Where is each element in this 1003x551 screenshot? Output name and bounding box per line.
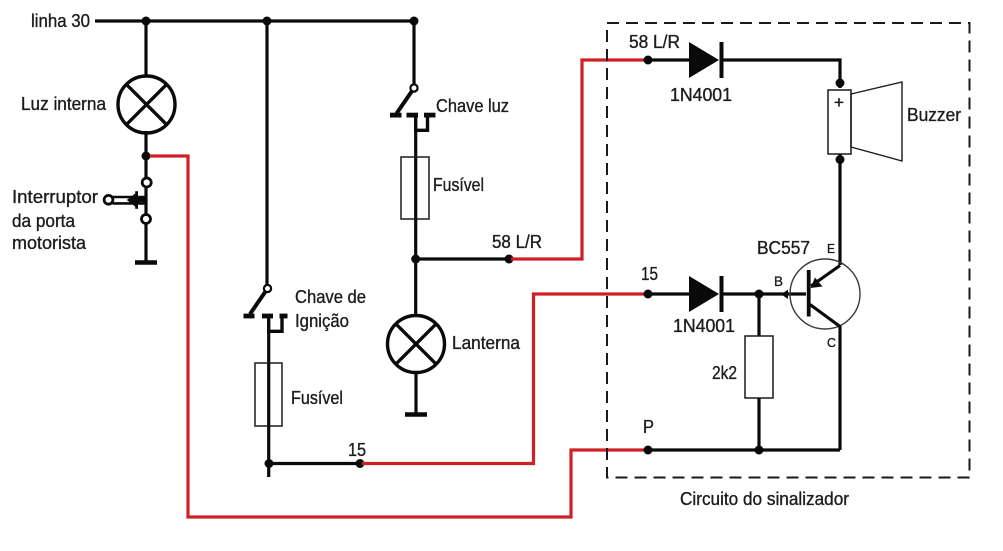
switch Chave de Ignição [244,285,288,331]
junction node 15 [265,459,274,468]
svg-text:Chave luz: Chave luz [436,96,509,116]
svg-text:da porta: da porta [12,211,76,231]
wire fuse to node 15 [267,426,270,477]
switch Interruptor da porta (door switch) [104,178,151,224]
svg-text:P: P [643,417,654,437]
svg-text:+: + [834,93,844,112]
node 58 L/R inside box [644,56,653,65]
wire node 15 horizontal [269,462,360,465]
ground below door switch [135,260,157,265]
wire top bus to Luz interna lamp [144,21,147,77]
svg-text:1N4001: 1N4001 [670,85,732,105]
junction top bus / Luz interna column [142,17,151,26]
junction node 58 L/R [411,255,420,264]
junction base / resistor node [755,290,764,299]
buzzer [828,82,902,161]
wire node 58 L/R horizontal [416,257,509,260]
wire top bus to Chave luz [412,21,415,85]
svg-text:15: 15 [641,264,658,284]
wire top bus linha 30 [95,19,414,22]
junction resistor / bottom rail [755,446,764,455]
wire fuse to node 58 L/R [414,219,417,259]
node junction red tap below Luz interna [142,152,151,161]
svg-text:E: E [827,242,835,256]
dashed box Circuito do sinalizador [607,23,970,478]
fuse Fusível (light branch) [401,157,429,219]
diode D1 1N4001 [689,42,722,78]
wire Chave luz to fuse [414,130,417,157]
svg-text:Interruptor: Interruptor [12,187,98,207]
wire red: 58 L/R feed into signal circuit [511,60,645,259]
wire red: 15 feed into signal circuit [362,294,645,464]
diode D2 1N4001 [689,276,722,312]
node P [644,446,653,455]
svg-text:58 L/R: 58 L/R [492,232,542,252]
svg-text:B: B [774,274,783,289]
junction top bus / Chave luz column [410,17,419,26]
svg-text:Lanterna: Lanterna [452,333,521,353]
wire base junction to resistor [757,294,760,336]
node 15 inside box [644,290,653,299]
lamp Luz interna [118,76,175,133]
wire resistor to bottom rail [757,398,760,450]
transistor Q1 BC557 [790,259,860,329]
wire transistor collector to bottom rail [838,326,841,450]
svg-text:Fusível: Fusível [433,175,484,195]
fuse Fusível (ignition branch) [255,363,282,426]
wire red: Luz interna tap to node P (around bottom) [150,156,645,517]
wire 58 L/R node to diode D1 [648,58,690,61]
svg-text:2k2: 2k2 [712,363,737,383]
switch Chave luz [390,84,436,130]
svg-text:58 L/R: 58 L/R [629,32,680,52]
wire 15 node to diode D2 [648,292,690,295]
wire bottom rail P to collector [648,448,840,451]
wire node 58 L/R to Lanterna lamp [414,259,417,317]
wire top bus to Chave de Ignição [265,21,268,285]
junction top bus / Chave de Ignição column [263,17,272,26]
wire diode D2 to base junction [722,292,760,295]
svg-text:Luz interna: Luz interna [21,94,107,114]
lamp Lanterna [388,316,445,373]
wire diode D1 to buzzer [722,60,841,88]
svg-text:C: C [827,336,836,350]
wire Luz interna lamp to door switch [144,131,147,178]
wire Lanterna to ground [414,372,417,413]
junction below buzzer [836,155,845,164]
node 58 L/R terminal dot [505,255,514,264]
wire Chave de Ignição to fuse [267,331,270,363]
svg-text:15: 15 [348,440,366,460]
node 15 terminal dot [356,459,365,468]
svg-text:linha 30: linha 30 [31,11,90,31]
svg-text:Buzzer: Buzzer [907,105,961,125]
wire door switch to ground [144,186,147,215]
ground below Lanterna [405,412,427,417]
svg-text:1N4001: 1N4001 [673,316,735,336]
svg-text:Fusível: Fusível [291,388,343,408]
svg-text:Chave de: Chave de [295,287,366,307]
junction above buzzer [836,79,845,88]
svg-text:Ignição: Ignição [295,311,349,331]
svg-text:Circuito do sinalizador: Circuito do sinalizador [680,489,849,509]
resistor 2k2 [745,336,773,398]
wire base junction to transistor base [759,292,806,295]
wire buzzer to transistor emitter [838,154,841,265]
svg-text:motorista: motorista [12,233,87,253]
svg-text:BC557: BC557 [757,238,810,258]
